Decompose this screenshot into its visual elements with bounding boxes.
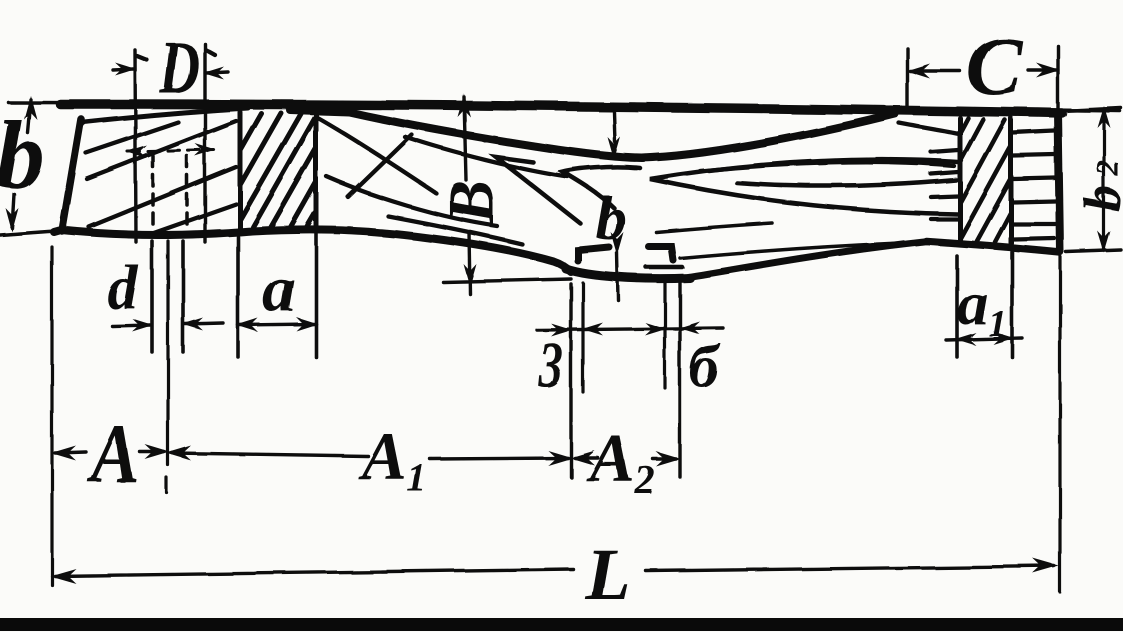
A1 right arrow: [548, 451, 573, 466]
D hidden dashed dimension: [128, 150, 214, 152]
bottom edge rising right: [688, 241, 928, 277]
grain cross line: [348, 135, 412, 197]
D left arrow: [113, 69, 133, 70]
svg-text:d: d: [107, 254, 139, 322]
b2 ticks: [1062, 108, 1121, 252]
svg-text:a: a: [263, 253, 296, 326]
A right arrow: [145, 445, 170, 460]
C left arrow: [910, 69, 960, 72]
a1 right arrow: [993, 332, 1014, 345]
dimension A2 line: [575, 458, 676, 459]
dimension A1 line: [172, 453, 568, 459]
a left arrow: [236, 318, 258, 332]
hub bottom edge: [566, 269, 690, 279]
grain chevron A: [650, 160, 958, 214]
b2 bottom arrow: [1098, 231, 1111, 253]
wall arrows: [551, 324, 572, 337]
svg-text:B: B: [435, 180, 508, 225]
svg-text:A2: A2: [585, 420, 654, 502]
left hatch section edges: [240, 110, 316, 230]
grain extra mid line: [700, 162, 954, 171]
b bottom arrow: [6, 208, 19, 232]
svg-text:A: A: [87, 408, 139, 501]
C right arrow: [1028, 68, 1056, 71]
B top arrow: [458, 94, 471, 117]
dimension a1 verticals: [957, 252, 1012, 357]
A2 left arrow: [570, 451, 595, 466]
b top arrow: [24, 95, 37, 119]
hub level tick right: [646, 265, 682, 270]
hub socket dashed top right: [648, 246, 673, 260]
grain above bottom right: [680, 242, 928, 258]
D right arrow: [206, 72, 228, 73]
d right arrow: [185, 323, 223, 324]
B bottom tick: [443, 279, 571, 282]
dimension b2 vertical: [1102, 109, 1105, 250]
svg-text:a1: a1: [957, 270, 1007, 345]
dimension B vertical: [464, 97, 470, 294]
left edge of blank: [62, 119, 81, 231]
3 and b wall dimension line: [537, 328, 723, 330]
hidden hole dashed lines: [153, 156, 187, 231]
dimension d verticals: [152, 241, 183, 352]
A left arrow: [51, 446, 76, 461]
bottom black bar: [0, 618, 1123, 631]
svg-text:L: L: [584, 534, 630, 616]
bottom edge left part: [54, 229, 571, 272]
svg-text:D: D: [159, 26, 200, 110]
grain chevron B: [737, 180, 956, 186]
grain merge right: [899, 123, 959, 134]
bottom edge right block: [926, 241, 1060, 252]
left extension vertical: [50, 247, 53, 585]
grain left of right hatch: [931, 150, 958, 219]
svg-text:A1: A1: [357, 418, 426, 500]
right hatch section edges: [960, 118, 1011, 243]
hub face lines below: [571, 282, 680, 477]
dimension b vertical: [12, 99, 30, 228]
dimension L line: [55, 566, 1054, 576]
D flags: [137, 50, 215, 60]
A2 right arrow: [656, 452, 681, 467]
b1 top arrow: [608, 137, 621, 160]
wood grain middle-left: [318, 118, 436, 193]
hub socket dashed top left: [578, 247, 609, 261]
socket wall lines below: [583, 283, 665, 392]
grain right of right hatch: [1013, 131, 1055, 239]
hub centre line: [167, 241, 168, 493]
L right arrow: [1033, 559, 1059, 574]
dimension A line: [55, 452, 164, 453]
dimension D verticals: [135, 44, 205, 242]
d left arrow: [112, 325, 150, 326]
svg-text:3: 3: [538, 329, 563, 402]
svg-text:b2: b2: [1075, 160, 1123, 212]
top edge of blank (thick): [60, 104, 1062, 113]
B bottom arrow: [464, 264, 477, 287]
right edge of blank: [1058, 112, 1060, 251]
a right arrow: [296, 317, 318, 331]
a verticals: [238, 233, 316, 357]
dimension b1 vertical: [614, 112, 618, 300]
right hatch lines: [960, 118, 1011, 242]
grain chevron 1: [496, 157, 581, 224]
wood grain left block: [86, 121, 236, 235]
a1 left arrow: [955, 333, 976, 346]
svg-text:b: b: [0, 101, 44, 208]
dimension a line: [238, 324, 316, 325]
dimension C verticals: [907, 46, 1058, 112]
b bottom tick: [0, 231, 55, 235]
A1 left arrow: [166, 446, 191, 461]
b2 top arrow: [1098, 106, 1111, 128]
right extension vertical: [1058, 253, 1061, 592]
grain near hub right: [656, 223, 772, 232]
a1 line: [946, 338, 1022, 340]
b1 bottom arrow: [611, 232, 624, 255]
carved top dip curve: [290, 110, 895, 158]
top edge sketch double line left: [84, 108, 248, 122]
svg-text:b: b: [596, 185, 627, 253]
left hatch lines: [240, 112, 316, 228]
top reference line thin full width: [8, 102, 1120, 111]
grain chevron 2: [563, 167, 640, 208]
svg-text:б: б: [689, 334, 721, 400]
L left arrow: [50, 569, 76, 584]
svg-text:C: C: [966, 20, 1023, 113]
